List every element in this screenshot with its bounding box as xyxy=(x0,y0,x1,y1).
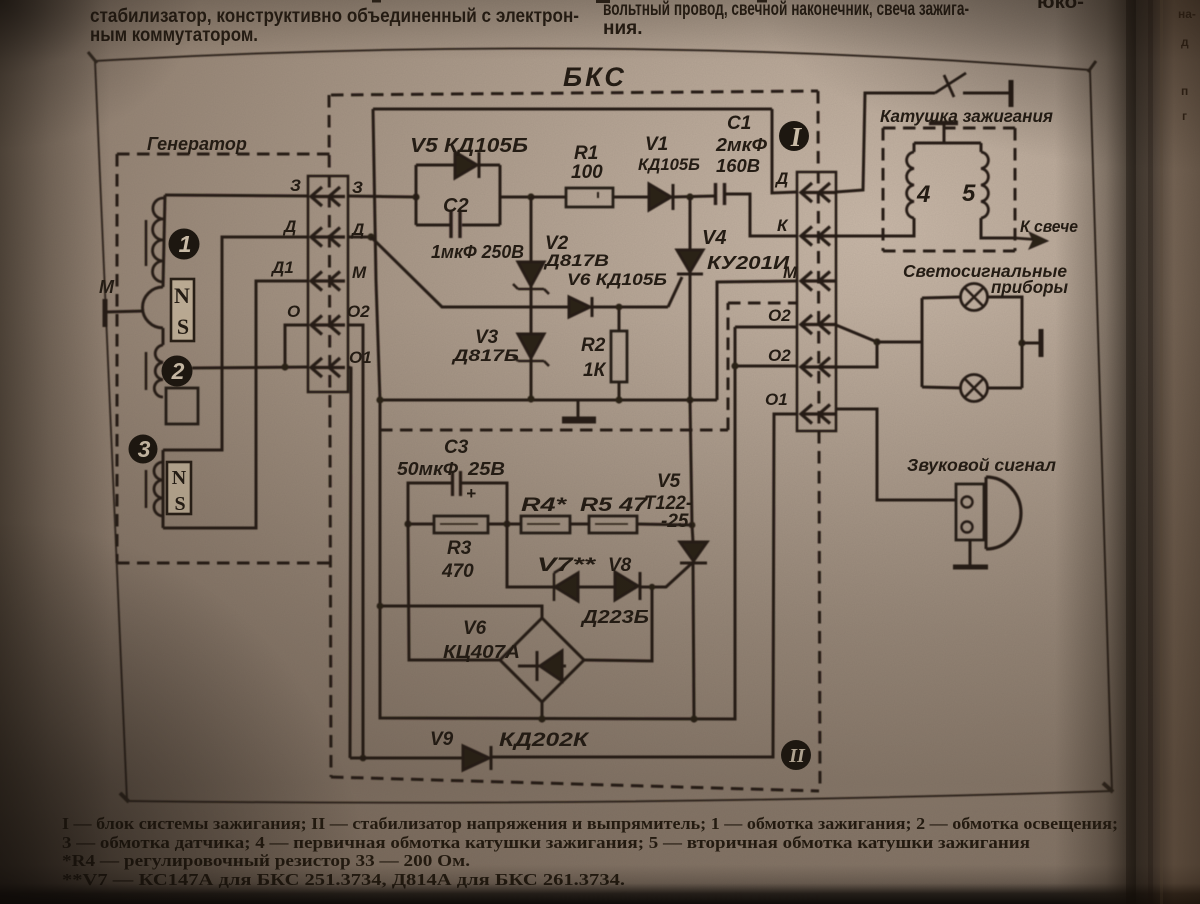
svg-text:V5 КД105Б: V5 КД105Б xyxy=(410,135,528,157)
svg-text:V6 КД105Б: V6 КД105Б xyxy=(567,270,667,289)
svg-text:С2: С2 xyxy=(443,195,469,217)
svg-text:З: З xyxy=(352,178,363,197)
svg-text:М: М xyxy=(352,263,367,282)
svg-text:R1: R1 xyxy=(574,143,598,164)
svg-text:V1: V1 xyxy=(645,134,668,155)
svg-text:Д817В: Д817В xyxy=(543,251,609,270)
svg-text:5: 5 xyxy=(962,180,976,207)
svg-text:КД105Б: КД105Б xyxy=(638,155,700,174)
svg-text:БКС: БКС xyxy=(563,62,627,92)
svg-text:1мкФ 250В: 1мкФ 250В xyxy=(431,242,524,262)
svg-text:С1: С1 xyxy=(727,113,751,134)
svg-text:Д: Д xyxy=(350,220,364,239)
svg-text:V4: V4 xyxy=(702,227,726,249)
svg-text:2мкФ: 2мкФ xyxy=(715,135,767,155)
svg-text:З: З xyxy=(290,176,301,195)
svg-text:160В: 160В xyxy=(716,156,760,176)
svg-text:КУ201И: КУ201И xyxy=(707,253,790,273)
svg-text:К: К xyxy=(777,216,789,235)
svg-text:1: 1 xyxy=(179,231,192,257)
svg-text:4: 4 xyxy=(916,181,930,208)
svg-text:Д: Д xyxy=(774,169,788,188)
svg-text:100: 100 xyxy=(571,162,603,183)
svg-text:Д1: Д1 xyxy=(270,258,294,277)
svg-text:Д: Д xyxy=(282,217,296,236)
